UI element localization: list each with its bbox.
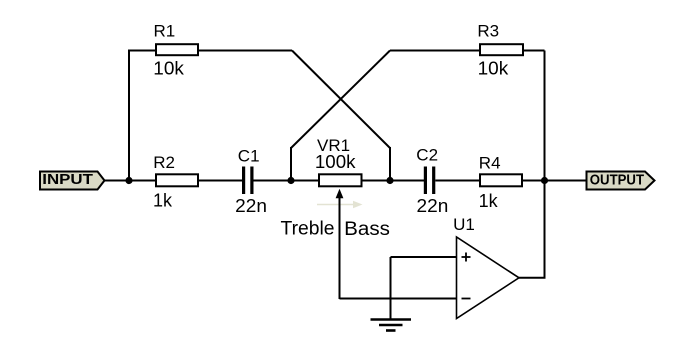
wire plus to ground vertical xyxy=(390,257,392,319)
wire input to node xyxy=(105,180,157,182)
wire R1 right xyxy=(198,50,292,52)
svg-text:10k: 10k xyxy=(478,59,510,79)
svg-text:Bass: Bass xyxy=(344,219,390,240)
node junction output xyxy=(541,177,548,184)
terminal INPUT xyxy=(40,172,105,190)
svg-text:100k: 100k xyxy=(315,152,357,172)
capacitor C1 xyxy=(235,146,267,216)
wire R4 to OUTPUT xyxy=(522,180,586,182)
direction arrow (light) xyxy=(317,201,363,208)
svg-text:C2: C2 xyxy=(416,146,438,165)
svg-text:OUTPUT: OUTPUT xyxy=(590,173,644,189)
op-amp U1 xyxy=(453,215,519,319)
svg-text:R3: R3 xyxy=(477,21,499,40)
wire C2 to R4 xyxy=(435,180,480,182)
wire diagonal R3 to VR1 left xyxy=(291,51,390,149)
svg-text:Treble: Treble xyxy=(281,219,335,240)
wire R2 to C1 xyxy=(198,180,242,182)
potentiometer VR1 xyxy=(315,136,362,198)
wire R1 top left xyxy=(128,50,156,52)
wire VR1 right stub xyxy=(389,147,391,181)
node junction input xyxy=(125,177,132,184)
svg-text:R2: R2 xyxy=(153,153,175,172)
wire wiper to op-amp minus xyxy=(340,298,457,300)
wire feedback vertical xyxy=(544,51,546,278)
wire diagonal R1 to VR1 right xyxy=(292,51,390,149)
svg-text:U1: U1 xyxy=(453,215,475,234)
svg-text:C1: C1 xyxy=(238,146,260,165)
wire plus input xyxy=(391,256,457,258)
svg-text:1k: 1k xyxy=(153,191,173,211)
node junction right of VR1 xyxy=(386,177,393,184)
wire op-amp output xyxy=(519,277,546,279)
svg-text:R4: R4 xyxy=(479,154,501,173)
node junction left of VR1 xyxy=(287,177,294,184)
svg-text:R1: R1 xyxy=(154,21,176,40)
wire C1 to VR1 xyxy=(254,180,320,182)
wire R1 left vertical xyxy=(128,50,130,181)
svg-text:10k: 10k xyxy=(153,59,185,79)
svg-text:22n: 22n xyxy=(417,196,449,216)
ground xyxy=(371,320,412,331)
svg-text:22n: 22n xyxy=(235,196,267,216)
resistor R2 xyxy=(153,153,198,210)
wire wiper vertical xyxy=(339,196,341,299)
capacitor C2 xyxy=(416,146,448,216)
svg-text:INPUT: INPUT xyxy=(42,172,93,188)
wire R3 left xyxy=(390,50,480,52)
svg-text:1k: 1k xyxy=(479,191,499,211)
terminal OUTPUT xyxy=(587,172,655,190)
wire R3 right xyxy=(523,50,545,52)
resistor R4 xyxy=(479,154,522,212)
resistor R1 xyxy=(153,21,198,78)
resistor R3 xyxy=(477,21,523,78)
wire VR1 left stub xyxy=(290,147,292,181)
wire VR1 to C2 xyxy=(362,180,425,182)
